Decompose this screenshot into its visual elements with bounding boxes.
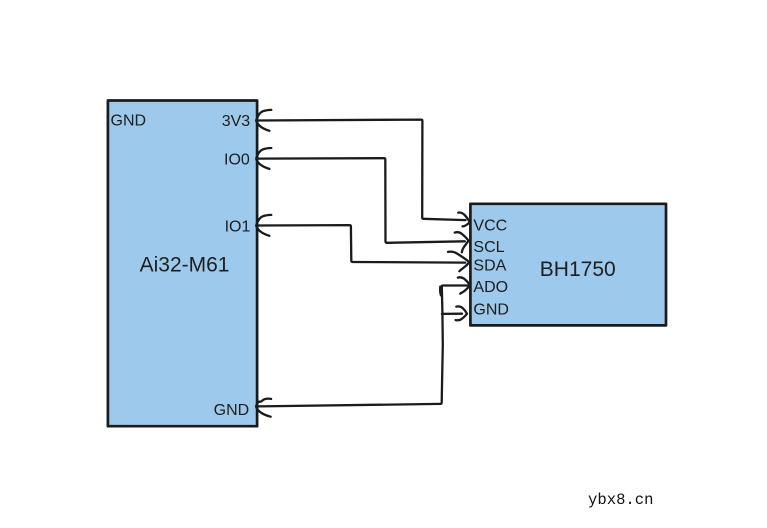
IC U2 BH1750 body: [470, 204, 666, 326]
arrowhead into U1 GND: [256, 399, 271, 417]
wire IO0 to SCL: [257, 158, 465, 243]
wire 3V3 to VCC: [257, 120, 466, 221]
arrowhead into VCC: [458, 213, 470, 227]
arrowhead into 3V3: [256, 110, 271, 131]
IC U1 Ai32-M61 body: [108, 101, 257, 427]
arrowhead into IO1: [256, 215, 271, 236]
svg-text:ADO: ADO: [473, 279, 508, 296]
svg-text:GND: GND: [473, 302, 509, 319]
svg-text:GND: GND: [214, 402, 250, 419]
arrowhead into ADO: [458, 277, 470, 293]
svg-text:IO1: IO1: [225, 219, 251, 236]
arrowhead into SDA: [448, 252, 469, 272]
svg-text:Ai32-M61: Ai32-M61: [140, 253, 230, 276]
arrowhead into IO0: [256, 148, 271, 169]
wire corner overshoot at ADO bend: [439, 287, 442, 296]
svg-text:ybx8.cn: ybx8.cn: [588, 491, 654, 509]
wire IO1 to SDA: [257, 225, 465, 263]
svg-text:SDA: SDA: [473, 257, 506, 274]
svg-text:BH1750: BH1750: [540, 258, 616, 281]
svg-text:3V3: 3V3: [222, 113, 251, 130]
svg-text:IO0: IO0: [224, 151, 250, 168]
svg-text:SCL: SCL: [473, 239, 504, 256]
svg-text:GND: GND: [111, 113, 147, 130]
wire GND net from ADO down to U1 GND: [258, 286, 469, 407]
arrowhead into U2 GND: [456, 306, 467, 320]
svg-text:VCC: VCC: [473, 217, 507, 234]
wire stub to U2 GND: [442, 313, 462, 315]
arrowhead into SCL: [455, 232, 469, 252]
